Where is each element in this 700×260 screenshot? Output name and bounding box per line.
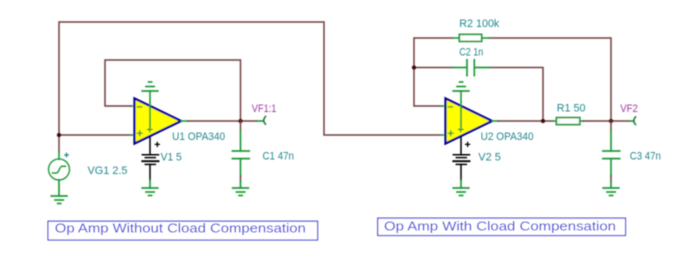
svg-text:C1 47n: C1 47n xyxy=(263,151,295,163)
svg-text:U2 OPA340: U2 OPA340 xyxy=(481,131,534,143)
U1 output pin stub xyxy=(181,120,188,122)
ground above U2 xyxy=(453,82,469,91)
ground below V2 xyxy=(453,181,469,196)
U1 positive supply mark xyxy=(148,127,152,131)
voltage probe VF1:1 xyxy=(256,116,266,124)
svg-text:V2 5: V2 5 xyxy=(478,151,501,163)
V2 plus polarity mark xyxy=(466,142,470,146)
U1 supply line to top ground xyxy=(149,91,151,127)
node A junction dot xyxy=(57,133,61,137)
resistor R1 xyxy=(553,118,583,125)
svg-text:VF2: VF2 xyxy=(620,103,638,115)
ground above U1 xyxy=(142,82,158,91)
voltage generator VG1 xyxy=(49,152,70,180)
output node junction dot xyxy=(238,119,242,123)
svg-text:VG1 2.5: VG1 2.5 xyxy=(88,165,128,177)
wire C2 branch left xyxy=(414,67,453,69)
svg-text:R1 50: R1 50 xyxy=(557,103,586,115)
capacitor C3 xyxy=(603,131,620,176)
wire U2 inverting input branch xyxy=(414,38,453,106)
ground below C1 xyxy=(233,181,249,196)
wire U1 output to probe xyxy=(188,120,256,122)
ground below C3 xyxy=(603,181,619,196)
svg-text:Op Amp Without Cload Compensat: Op Amp Without Cload Compensation xyxy=(55,221,306,236)
wire R2 feedback top branch xyxy=(489,38,611,121)
svg-text:V1 5: V1 5 xyxy=(161,151,182,163)
wire U2 output to R1 xyxy=(498,120,553,122)
U2 inverting input mark xyxy=(449,106,453,108)
U2 output node junction dot xyxy=(541,119,545,123)
wire C3 to ground xyxy=(610,176,612,181)
U2 positive supply mark xyxy=(459,127,463,131)
op-amp U1 input pin stubs xyxy=(131,106,135,135)
wire U1 feedback loop xyxy=(105,60,241,121)
voltage probe VF2 xyxy=(628,117,636,125)
U2 output pin stub xyxy=(492,120,498,122)
capacitor C2 xyxy=(453,60,490,76)
wire node A to U1 plus input xyxy=(59,134,131,136)
caption box right xyxy=(378,218,626,235)
VG1 plus polarity mark xyxy=(65,153,69,157)
U2 non-inverting input mark xyxy=(449,131,453,135)
op-amp U2 xyxy=(446,99,493,144)
wire C1 to ground xyxy=(240,176,242,181)
V1 plus polarity mark xyxy=(155,142,159,146)
battery V2 xyxy=(453,137,469,181)
wire VF2 node down to C3 xyxy=(610,121,612,131)
wire R1 to probe VF2 xyxy=(583,120,628,122)
op-amp U1 xyxy=(135,99,182,144)
op-amp U2 input pin stubs xyxy=(441,106,446,135)
wire output node down to C1 xyxy=(240,121,242,131)
battery V1 xyxy=(142,137,158,181)
VF2 node junction dot xyxy=(609,119,613,123)
wire input loop left: VG1 node up and across to second stage xyxy=(59,22,441,135)
svg-text:Op Amp With Cload Compensation: Op Amp With Cload Compensation xyxy=(384,218,616,233)
svg-text:VF1:1: VF1:1 xyxy=(252,103,277,115)
svg-text:C3 47n: C3 47n xyxy=(630,150,661,162)
U1 non-inverting input mark xyxy=(138,131,142,135)
resistor R2 xyxy=(453,34,489,41)
svg-text:U1 OPA340: U1 OPA340 xyxy=(172,131,225,143)
svg-text:C2 1n: C2 1n xyxy=(459,47,483,59)
svg-text:R2 100k: R2 100k xyxy=(459,18,499,30)
ground below VG1 xyxy=(51,180,67,204)
caption box left xyxy=(48,221,318,240)
wire C2 branch right down to output node xyxy=(490,68,543,122)
U1 inverting input mark xyxy=(138,106,142,108)
capacitor C1 xyxy=(232,131,249,176)
U2 supply line to top ground xyxy=(460,91,462,127)
wire node A down to VG1 xyxy=(58,135,60,152)
C2 node junction dot xyxy=(412,65,416,69)
ground below V1 xyxy=(142,181,158,196)
